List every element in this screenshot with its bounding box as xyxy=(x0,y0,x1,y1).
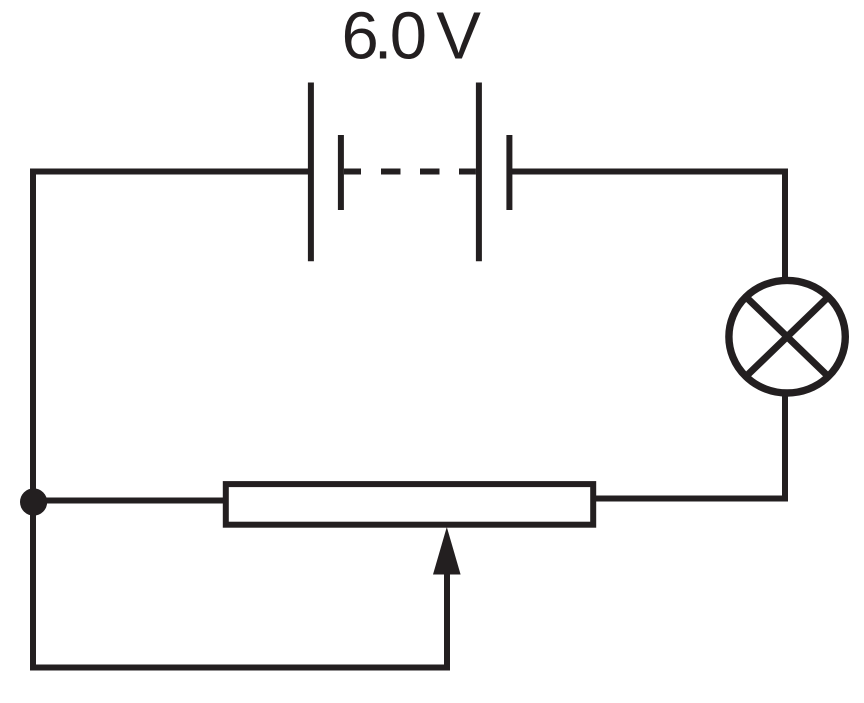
svg-text:0: 0 xyxy=(390,0,427,74)
svg-text:V: V xyxy=(436,0,481,74)
